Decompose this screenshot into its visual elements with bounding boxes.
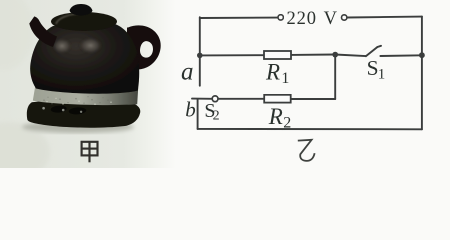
svg-text:1: 1: [378, 66, 386, 82]
svg-text:2: 2: [283, 114, 291, 131]
wire: R1 row right to junction: [291, 54, 335, 56]
lid knob: [70, 4, 93, 16]
wire: S1 right contact to right vertical: [380, 54, 422, 57]
wire: terminal b stub down: [197, 99, 199, 129]
body specular highlights: [52, 38, 72, 54]
kettle lid: [51, 12, 117, 31]
resistor R2: [264, 95, 291, 103]
svg-text:R: R: [268, 104, 283, 129]
junction dot right of R1: [332, 52, 338, 58]
wire: left vertical (to terminal a): [199, 17, 201, 86]
wire: bottom return wire: [198, 128, 422, 130]
svg-text:1: 1: [281, 70, 289, 87]
switch S1 blade: [366, 47, 378, 56]
wire: top right segment from 220V terminal: [347, 16, 422, 19]
wire: S2 to R2: [218, 98, 266, 100]
band speckle texture: [43, 96, 109, 104]
kettle spout: [29, 16, 57, 47]
svg-text:a: a: [181, 59, 194, 86]
svg-text:R: R: [265, 60, 280, 85]
svg-text:b: b: [185, 97, 196, 121]
base small light dots: [42, 107, 45, 110]
wire: right vertical: [421, 17, 423, 130]
wire: b row left end to switch S2: [192, 98, 212, 100]
switch S2 terminal circle: [212, 96, 218, 102]
wire: R1 row left: [200, 54, 264, 56]
photo corner shading: [0, 122, 50, 182]
label 甲 (caption of photo): [82, 142, 98, 163]
kettle body: [30, 24, 139, 94]
svg-text:2: 2: [213, 109, 220, 124]
switch S1 blade tip tick: [377, 46, 381, 47]
base front-face indentations: [50, 105, 67, 113]
220V terminal circle left: [278, 15, 283, 20]
kettle base: [27, 101, 140, 128]
junction dot at node a column: [197, 53, 203, 59]
kettle handle: [127, 25, 161, 69]
junction dot on right vertical: [419, 52, 425, 58]
kettle shadow: [22, 121, 134, 133]
heating band: [33, 86, 138, 105]
svg-text:220 V: 220 V: [287, 9, 338, 29]
resistor R1: [264, 51, 291, 59]
wire: top left segment to 220V terminal: [200, 17, 278, 19]
wire: junction to switch S1 pivot: [335, 55, 366, 57]
photo background (panel 甲): [0, 0, 176, 168]
label 乙 (caption of circuit): [298, 140, 315, 161]
wire: R2 to middle vertical: [291, 98, 336, 100]
svg-text:S: S: [367, 56, 379, 80]
220V terminal circle right: [342, 15, 347, 20]
wire: middle vertical junction to b row: [334, 55, 336, 100]
